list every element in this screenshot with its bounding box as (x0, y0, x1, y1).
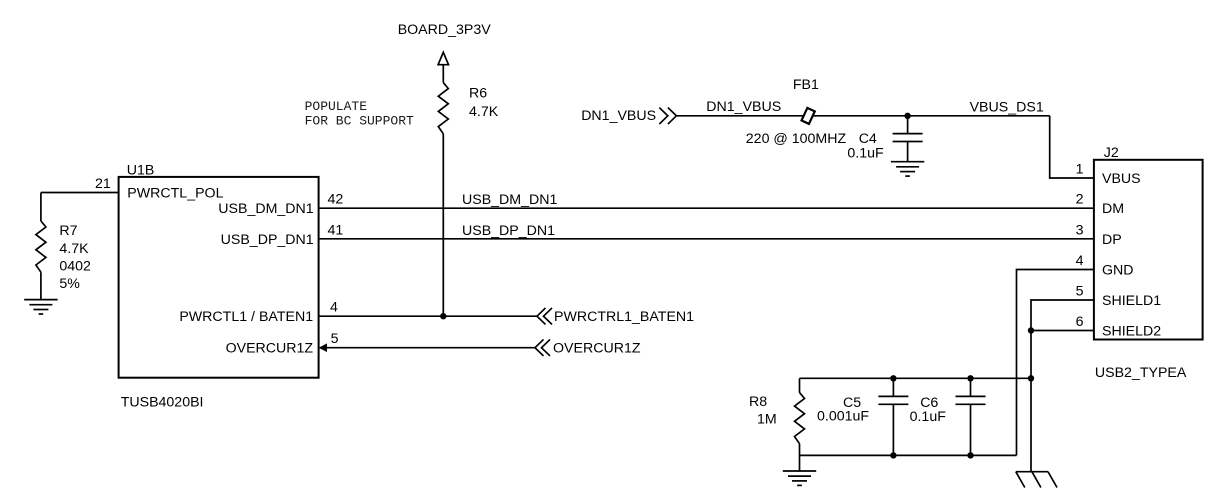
svg-text:DN1_VBUS: DN1_VBUS (706, 99, 781, 115)
svg-text:0.001uF: 0.001uF (817, 408, 869, 424)
svg-text:R8: R8 (749, 394, 767, 410)
svg-text:SHIELD2: SHIELD2 (1102, 324, 1161, 340)
svg-text:USB_DM_DN1: USB_DM_DN1 (218, 201, 314, 217)
svg-text:42: 42 (328, 192, 344, 208)
svg-text:USB_DP_DN1: USB_DP_DN1 (462, 223, 555, 239)
svg-text:R6: R6 (469, 86, 487, 102)
svg-text:4: 4 (1076, 253, 1084, 269)
svg-text:OVERCUR1Z: OVERCUR1Z (226, 341, 314, 357)
svg-text:3: 3 (1076, 222, 1084, 238)
svg-text:4: 4 (330, 300, 338, 316)
svg-text:0402: 0402 (59, 258, 91, 274)
svg-text:USB_DP_DN1: USB_DP_DN1 (221, 232, 314, 248)
svg-text:VBUS_DS1: VBUS_DS1 (970, 100, 1044, 116)
svg-text:BOARD_3P3V: BOARD_3P3V (398, 22, 492, 38)
svg-text:0.1uF: 0.1uF (910, 409, 947, 425)
svg-text:41: 41 (328, 222, 344, 238)
svg-text:TUSB4020BI: TUSB4020BI (121, 395, 204, 411)
svg-text:OVERCUR1Z: OVERCUR1Z (553, 341, 641, 357)
svg-text:PWRCTL1 / BATEN1: PWRCTL1 / BATEN1 (179, 309, 313, 325)
svg-text:2: 2 (1076, 192, 1084, 208)
svg-text:USB_DM_DN1: USB_DM_DN1 (462, 192, 558, 208)
svg-text:5: 5 (331, 331, 339, 347)
svg-text:J2: J2 (1104, 145, 1119, 161)
svg-text:USB2_TYPEA: USB2_TYPEA (1095, 365, 1187, 381)
svg-text:21: 21 (95, 176, 111, 192)
svg-text:4.7K: 4.7K (59, 241, 89, 257)
svg-text:R7: R7 (59, 223, 77, 239)
svg-text:PWRCTRL1_BATEN1: PWRCTRL1_BATEN1 (554, 309, 694, 325)
svg-text:PWRCTL_POL: PWRCTL_POL (127, 186, 223, 202)
svg-text:U1B: U1B (127, 162, 155, 178)
svg-text:DN1_VBUS: DN1_VBUS (581, 108, 656, 124)
svg-text:5%: 5% (59, 276, 80, 292)
svg-text:4.7K: 4.7K (469, 104, 499, 120)
svg-text:220 @ 100MHZ: 220 @ 100MHZ (746, 131, 847, 147)
svg-text:VBUS: VBUS (1102, 171, 1141, 187)
svg-text:5: 5 (1076, 284, 1084, 300)
svg-text:DM: DM (1102, 201, 1124, 217)
svg-text:6: 6 (1076, 314, 1084, 330)
svg-text:FOR BC SUPPORT: FOR BC SUPPORT (305, 114, 414, 129)
svg-text:FB1: FB1 (793, 77, 819, 93)
svg-text:DP: DP (1102, 232, 1122, 248)
svg-text:SHIELD1: SHIELD1 (1102, 293, 1161, 309)
svg-text:GND: GND (1102, 263, 1134, 279)
svg-text:0.1uF: 0.1uF (847, 145, 884, 161)
svg-text:POPULATE: POPULATE (305, 99, 368, 114)
svg-text:1: 1 (1076, 162, 1084, 178)
svg-text:1M: 1M (757, 411, 777, 427)
